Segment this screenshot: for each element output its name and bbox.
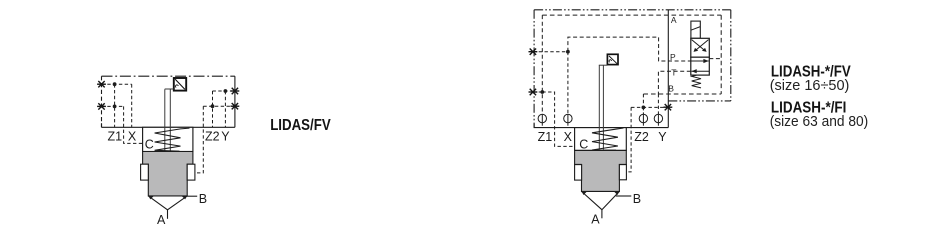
svg-text:LIDAS/FV: LIDAS/FV	[270, 117, 331, 134]
port notch left (right diagram)	[575, 165, 582, 181]
wire: Z2 below circle	[642, 123, 644, 128]
port notch left	[141, 164, 149, 180]
node: upper-right junction dot	[224, 89, 228, 93]
port A stem (right)	[601, 210, 603, 219]
gauge port circle Y	[654, 114, 662, 122]
spring (main poppet)	[155, 128, 190, 151]
wire: X pilot up over to P	[568, 37, 691, 61]
seat wedge left (right diagram)	[582, 191, 588, 195]
wire: upper-left row Z1 asterisk to corner	[102, 83, 132, 85]
port B line (right)	[616, 195, 632, 197]
pilot stem tube	[165, 89, 174, 151]
svg-text:T: T	[671, 67, 676, 77]
svg-text:B: B	[668, 83, 674, 93]
orifice plug X (asterisk)	[529, 49, 538, 55]
wire: B line	[643, 93, 721, 95]
wire: T line from valve	[658, 71, 690, 94]
cover dashed box top	[542, 14, 721, 16]
svg-text:A: A	[591, 213, 600, 227]
node: upper-left junction dot	[113, 82, 117, 86]
node: X junction dot	[566, 50, 570, 54]
wire: upper-right corner down through lower dot	[212, 91, 214, 127]
wire: X line down to gauge port	[567, 52, 569, 115]
node: lower-right junction dot	[211, 104, 215, 108]
wire: Z2 down to gauge port	[642, 107, 644, 114]
wire: Z1 asterisk row	[533, 91, 542, 93]
svg-text:Y: Y	[658, 130, 667, 144]
node: Z1 junction dot	[540, 90, 544, 94]
enclosure pilot bottom	[668, 100, 731, 102]
svg-text:Z1: Z1	[108, 129, 123, 143]
svg-text:C: C	[145, 137, 154, 151]
orifice plug upper-right (asterisk)	[231, 88, 240, 94]
svg-text:X: X	[564, 130, 573, 144]
valve body (gray)	[143, 152, 193, 196]
divider main/pilot	[667, 10, 669, 128]
solenoid slash	[691, 27, 700, 31]
envelope left edge (pilot line)	[101, 76, 103, 127]
svg-text:B: B	[633, 192, 641, 206]
wire: upper-left corner down	[131, 84, 133, 127]
pilot valve U1: solenoid box	[691, 21, 700, 38]
enclosure outer top	[534, 9, 731, 11]
enclosure outer right	[730, 10, 732, 101]
main bottom edge	[534, 127, 669, 129]
orifice plug lower-right (asterisk)	[231, 103, 240, 109]
wire: Z2/Y pilot line down and into body	[193, 106, 203, 173]
wire: X asterisk row	[533, 51, 568, 53]
wire: Z2 row dot to asterisk	[631, 106, 668, 108]
wire: upper-right row corner to asterisk	[213, 90, 235, 92]
node: Z2 junction dot	[642, 106, 646, 110]
wire: B corner down to Z2 dot	[642, 94, 644, 107]
svg-text:B: B	[199, 192, 207, 206]
wire: left dot column	[114, 84, 116, 127]
wire: right dot column	[224, 91, 226, 127]
wire: Z2 side line into body	[626, 107, 631, 171]
seat wedge left	[148, 196, 154, 200]
orifice plug Z2 (asterisk)	[664, 104, 673, 110]
spring chamber box C	[143, 127, 193, 151]
wire: X pilot line down and into body	[124, 106, 143, 143]
svg-text:(size 16÷50): (size 16÷50)	[770, 78, 850, 94]
envelope top edge	[102, 75, 235, 77]
pilot valve position 1 (crossed arrows)	[691, 38, 710, 57]
wire: A stub to valve	[709, 58, 721, 60]
pilot valve spring	[692, 75, 701, 88]
port notch right (right diagram)	[619, 165, 626, 180]
wire: lower-left row asterisk to corner	[102, 105, 124, 107]
envelope right edge	[234, 76, 236, 127]
svg-text:A: A	[157, 213, 166, 227]
poppet seat V	[148, 196, 187, 210]
enclosure outer left	[533, 10, 535, 128]
orifice plug Z1 (asterisk)	[529, 89, 538, 95]
svg-text:Y: Y	[221, 129, 230, 143]
gauge port circle X	[564, 114, 572, 122]
poppet seat V (right)	[582, 191, 620, 209]
wire: X below circle	[567, 123, 569, 128]
orifice plug upper-left (asterisk)	[97, 81, 106, 87]
svg-text:Z2: Z2	[205, 129, 220, 143]
orifice plug lower-left (asterisk)	[97, 103, 106, 109]
svg-text:Z2: Z2	[634, 130, 649, 144]
seat wedge right	[181, 196, 187, 200]
seat wedge right (right diagram)	[613, 191, 619, 195]
node: lower-left junction dot	[113, 105, 117, 109]
gauge port circle Z1	[538, 114, 546, 122]
wire: X pilot branch into spring chamber	[542, 92, 574, 146]
gauge port circle Z2	[639, 114, 647, 122]
port B line	[186, 195, 197, 197]
wire: Z1 below circle	[541, 123, 543, 128]
svg-text:A: A	[671, 15, 677, 25]
port A stem	[167, 210, 169, 219]
pilot valve position 2 (parallel flow)	[691, 57, 710, 75]
port notch right	[187, 164, 195, 180]
wire: lower-right row corner to asterisk	[203, 105, 235, 107]
wire: cover left edge / Z1 line	[541, 15, 543, 114]
envelope bottom edge	[102, 126, 235, 128]
orifice insert box (right)	[607, 54, 618, 64]
svg-text:(size 63 and 80): (size 63 and 80)	[770, 114, 869, 130]
envelope bottom-left corner stub	[101, 123, 103, 127]
spring (right main poppet)	[592, 128, 624, 150]
enclosure bottom-left corner stub	[533, 124, 535, 128]
cover dashed box right / B line path	[720, 15, 722, 94]
svg-text:C: C	[579, 138, 588, 152]
svg-text:X: X	[128, 129, 137, 143]
svg-text:Z1: Z1	[538, 130, 553, 144]
spring chamber box C (right)	[575, 128, 627, 151]
wire: Y below circle	[657, 123, 659, 128]
wire: Y line down to gauge port	[657, 94, 659, 114]
valve body gray (right)	[575, 150, 627, 191]
svg-text:P: P	[670, 52, 676, 62]
orifice insert box with diagonal	[174, 78, 186, 91]
pilot stem tube (right)	[599, 65, 608, 149]
